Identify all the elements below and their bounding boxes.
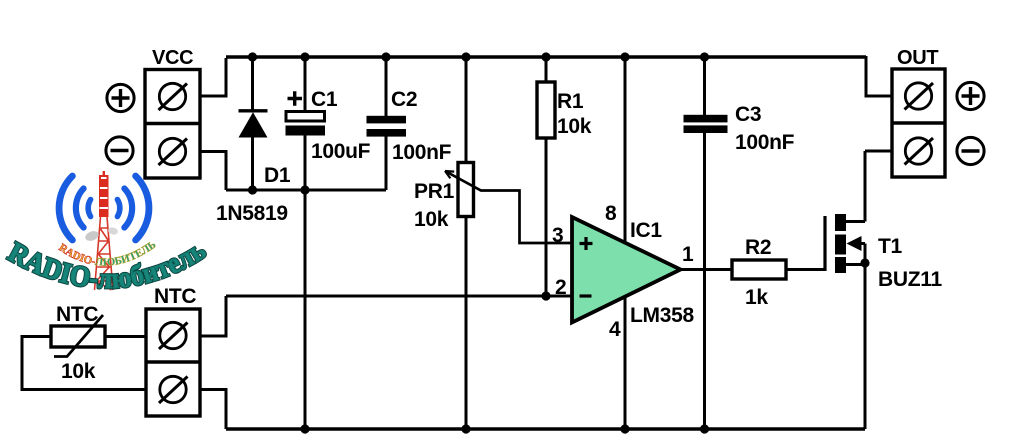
svg-text:C3: C3 (735, 103, 761, 126)
wire inverting input (pin 2) net (226, 295, 572, 298)
logo big curved text RADIO-любитель (3, 234, 212, 295)
svg-text:NTC: NTC (154, 285, 196, 308)
svg-text:10k: 10k (557, 115, 592, 138)
svg-text:2: 2 (555, 276, 566, 299)
svg-text:1k: 1k (745, 286, 768, 309)
terminal block NTC (146, 309, 200, 416)
wire R1 branch (545, 57, 548, 296)
svg-text:R2: R2 (745, 236, 771, 259)
wire C1 branch (304, 57, 307, 429)
svg-text:1N5819: 1N5819 (216, 202, 288, 225)
VCC minus symbol (106, 137, 133, 164)
diode D1 (239, 111, 268, 138)
svg-text:T1: T1 (878, 235, 903, 258)
wire NTC loop left side (22, 337, 146, 390)
junction dots top rail (248, 52, 709, 61)
svg-text:100nF: 100nF (735, 131, 795, 154)
junction dots ground rail (300, 424, 709, 433)
svg-text:10k: 10k (61, 360, 96, 383)
wire NTC block top terminal to pin2 net (200, 296, 226, 336)
junction dot T1 source node (860, 258, 869, 267)
wire op-amp pin 8 supply (624, 57, 627, 243)
wire op-amp output pin 1 to R2 (680, 268, 732, 271)
wire PR1 branch (465, 57, 468, 429)
svg-text:10k: 10k (414, 208, 449, 231)
OUT minus symbol (957, 137, 984, 164)
svg-text:1: 1 (682, 243, 694, 266)
wire NTC block bottom terminal to ground rail (200, 390, 226, 430)
wire top supply rail (226, 55, 866, 59)
transistor T1 body arrow (847, 236, 862, 251)
resistor R2 (732, 260, 786, 279)
junction dots lower VCC- rail (248, 185, 310, 194)
svg-text:4: 4 (609, 318, 621, 341)
logo transmitter tower (84, 171, 119, 290)
wire lower rail (VCC- net) (226, 189, 386, 192)
svg-text:PR1: PR1 (414, 180, 455, 203)
svg-text:C2: C2 (391, 88, 417, 111)
wire top rail to OUT+ (866, 56, 892, 96)
wire bottom ground rail (226, 427, 865, 431)
capacitor C3 (684, 115, 728, 133)
PR1 wiper arrow and wire to pin 3 (445, 171, 572, 243)
wire VCC- terminal down to lower rail (200, 152, 226, 191)
wire T1 drain up to OUT- (846, 151, 892, 222)
logo radio waves right arcs (117, 176, 149, 240)
logo radio waves left arcs (59, 176, 91, 240)
svg-text:OUT: OUT (897, 47, 938, 69)
wire R2 to gate of T1 (786, 268, 825, 271)
svg-text:3: 3 (552, 224, 563, 247)
svg-text:IC1: IC1 (630, 219, 662, 242)
svg-text:100uF: 100uF (311, 140, 371, 163)
OUT plus symbol (957, 82, 984, 109)
wire VCC+ terminal to top rail (200, 58, 226, 96)
VCC plus symbol (107, 84, 134, 111)
op-amp + input mark (580, 237, 593, 250)
terminal block VCC (145, 70, 200, 179)
svg-text:8: 8 (605, 202, 617, 225)
trimmer PR1 body (458, 163, 474, 217)
svg-text:D1: D1 (264, 164, 291, 187)
svg-text:100nF: 100nF (392, 141, 452, 164)
svg-text:VCC: VCC (152, 47, 193, 69)
wire T1 body to source node (860, 244, 865, 264)
wire T1 source to ground rail (846, 263, 865, 429)
wire C3 branch (703, 57, 706, 429)
capacitor C2 (367, 116, 407, 137)
svg-text:BUZ11: BUZ11 (878, 268, 942, 291)
terminal block OUT (892, 69, 945, 177)
resistor R1 (537, 82, 555, 138)
svg-text:LM358: LM358 (630, 304, 694, 327)
transistor T1 gate bar (823, 216, 826, 271)
svg-text:R1: R1 (557, 90, 584, 113)
wire C2 branch (385, 57, 388, 190)
svg-text:NTC: NTC (56, 303, 98, 326)
op-amp - input mark (580, 294, 592, 297)
thermistor NTC body (51, 326, 105, 347)
C1 plus polarity mark (288, 91, 303, 105)
wire D1 branch (251, 57, 254, 190)
capacitor C1 (electrolytic) (286, 112, 326, 136)
thermistor NTC diagonal mark (54, 315, 103, 357)
op-amp IC1 (572, 217, 681, 323)
wire op-amp pin 4 to ground (624, 296, 627, 429)
junction dot R1 to pin2 (541, 291, 550, 300)
svg-text:C1: C1 (311, 88, 338, 111)
logo small arc text RADIO-ЛЮБИТЕЛЬ (56, 239, 158, 269)
wire NTC thermistor to NTC block (105, 335, 146, 338)
transistor T1 channel bars (835, 214, 846, 273)
